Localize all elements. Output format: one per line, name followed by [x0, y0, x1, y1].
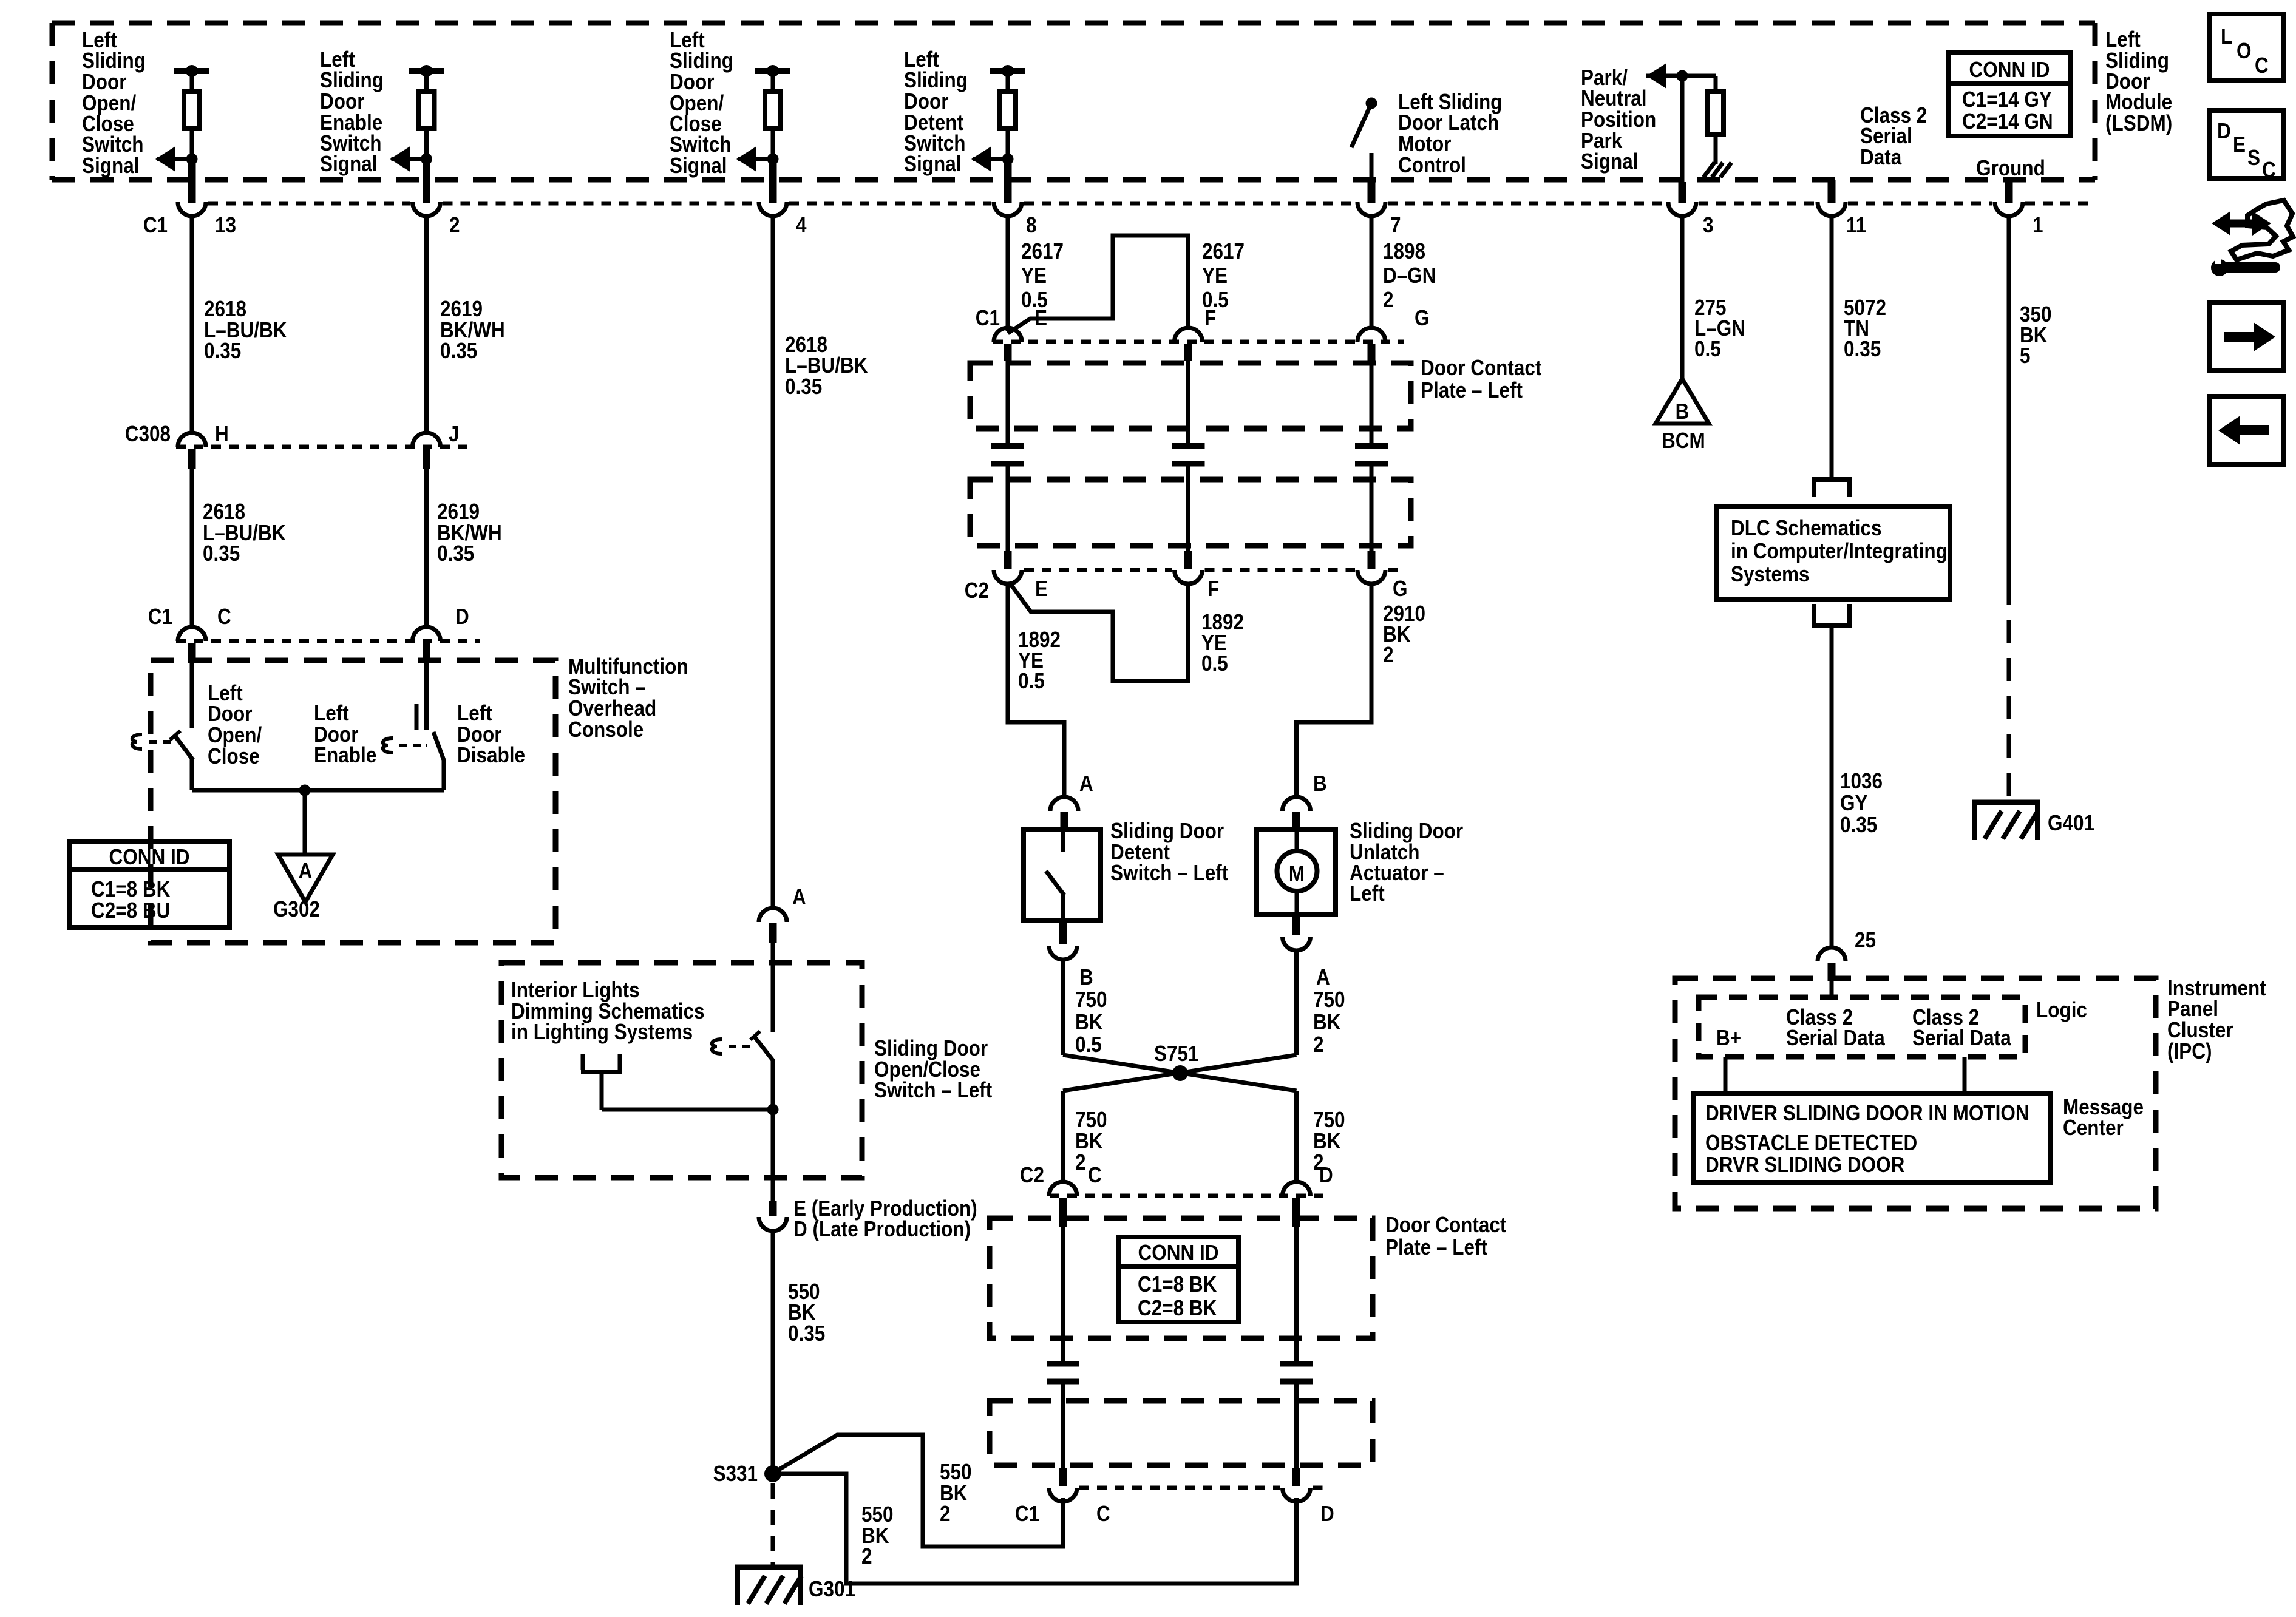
svg-text:C2: C2: [965, 578, 989, 603]
wire label 1892 YE 0.5 (F): [1201, 610, 1244, 676]
svg-text:Left: Left: [1350, 881, 1385, 906]
svg-text:YE: YE: [1021, 263, 1047, 288]
pin 4 internal circuit (bar, resistor, arrow): [736, 65, 790, 203]
BCM triangle B: [1656, 379, 1709, 424]
svg-text:CONN ID: CONN ID: [1969, 58, 2050, 82]
wire label 5072 TN 0.35: [1844, 296, 1886, 361]
connector C308 pin J: [413, 433, 441, 469]
svg-text:Switch – Left: Switch – Left: [1110, 861, 1228, 885]
svg-text:CONN ID: CONN ID: [1138, 1241, 1219, 1265]
svg-text:1: 1: [2033, 213, 2043, 237]
svg-text:Signal: Signal: [82, 154, 139, 178]
label Class 2 Serial Data (pin 11): [1860, 103, 1927, 169]
svg-text:2: 2: [1383, 643, 1394, 667]
svg-text:D: D: [2217, 119, 2231, 143]
box Sliding Door Unlatch Actuator - Left: [1257, 829, 1336, 915]
CONN ID box (overhead console): [69, 842, 229, 927]
connector C1 pin 4: [759, 202, 787, 216]
svg-text:Control: Control: [1398, 153, 1466, 177]
box Interior Lights Dimming: [501, 963, 862, 1178]
svg-text:Plate – Left: Plate – Left: [1421, 378, 1523, 402]
connector C1 pin 13: [178, 202, 206, 216]
svg-text:G302: G302: [273, 897, 320, 921]
wire label 750 BK 0.5: [1075, 988, 1107, 1057]
svg-text:Center: Center: [2063, 1116, 2124, 1140]
junction dot: [767, 1104, 779, 1116]
wire label 2910 BK 2: [1383, 602, 1425, 667]
svg-text:GY: GY: [1840, 791, 1868, 815]
icon DESC box: [2210, 110, 2284, 183]
wire label 750 BK 2: [1075, 1108, 1107, 1175]
svg-text:2: 2: [449, 213, 460, 237]
wire 1892 YE from C2 E down: [1006, 583, 1010, 722]
dimmer branch wire: [602, 1108, 773, 1112]
label Left Sliding Door Latch Motor Control (pin 7): [1398, 90, 1502, 177]
svg-text:C1: C1: [143, 213, 168, 237]
wire 750 BK 2 (to C2 D): [1294, 1091, 1299, 1183]
box Door Contact Plate upper (door half): [970, 363, 1411, 429]
connector C1 line C D (bottom): [1079, 1486, 1280, 1490]
wire 5072 TN to DLC: [1830, 215, 1834, 480]
svg-text:O: O: [2237, 39, 2252, 63]
connector C308 pin H: [178, 433, 206, 469]
connector C1 pin D (bottom): [1283, 1468, 1311, 1502]
svg-text:Plate – Left: Plate – Left: [1385, 1235, 1487, 1259]
svg-text:C1: C1: [976, 306, 1000, 330]
svg-text:0.35: 0.35: [204, 339, 241, 363]
inline connector B (actuator): [1283, 797, 1311, 829]
svg-text:H: H: [215, 422, 229, 446]
svg-text:750: 750: [1075, 988, 1107, 1012]
svg-text:Signal: Signal: [904, 152, 961, 176]
inline connector B (detent out): [1049, 923, 1077, 960]
wire stub pin 1: [2005, 180, 2013, 203]
box Message Center: [1694, 1093, 2050, 1182]
wire 2619 from pin 2 to C308: [424, 215, 429, 433]
inline connector A (actuator out): [1283, 915, 1311, 951]
wire label 750 BK 2: [1313, 1108, 1345, 1175]
off-page bracket top (DLC): [1812, 480, 1852, 497]
wire 2619 C308 to C1: [424, 469, 429, 628]
mechanical link dashes (door switch): [729, 1045, 750, 1048]
svg-text:0.35: 0.35: [437, 541, 474, 566]
wire 2618 from pin 4: [771, 215, 775, 908]
wire label 2618 L-BU/BK 0.35: [204, 297, 287, 363]
svg-text:in Lighting Systems: in Lighting Systems: [511, 1020, 693, 1044]
box DLC Schematics: [1716, 507, 1950, 600]
svg-text:C2=8 BU: C2=8 BU: [91, 898, 170, 923]
dashed wire S331 to G301: [771, 1483, 775, 1565]
svg-text:B+: B+: [1716, 1026, 1741, 1050]
CONN ID box (LSDM): [1949, 52, 2070, 136]
connector C1 pin C: [178, 627, 206, 663]
svg-text:A: A: [1316, 965, 1330, 989]
svg-text:Signal: Signal: [320, 152, 377, 176]
svg-text:0.35: 0.35: [1844, 337, 1881, 361]
svg-text:0.5: 0.5: [1075, 1032, 1102, 1057]
connector C1 (overhead console) line: [176, 639, 480, 643]
fixed contact bar (left door disable): [415, 704, 419, 730]
svg-text:25: 25: [1855, 928, 1876, 952]
inline connector E/D (early/late production): [759, 1201, 787, 1231]
wires through lower plate: [1061, 1227, 1065, 1361]
svg-text:BK: BK: [1313, 1010, 1341, 1034]
wire label 550 BK 0.35: [788, 1280, 825, 1346]
svg-text:C1=8 BK: C1=8 BK: [1138, 1272, 1217, 1297]
switch Left Door Open/Close: [170, 731, 193, 790]
wire 750 BK 2 (to C2 C): [1061, 1091, 1065, 1183]
wire into left door open/close switch: [190, 663, 194, 728]
svg-text:2617: 2617: [1021, 239, 1064, 263]
label Left Door Disable: [457, 701, 525, 767]
svg-text:BCM: BCM: [1662, 429, 1705, 453]
box Logic: [1699, 997, 2025, 1057]
switch common bus wire: [192, 788, 444, 793]
svg-text:3: 3: [1703, 213, 1714, 237]
internal chassis ground at pin 3: [1703, 163, 1731, 177]
wire into left door disable switch: [424, 663, 429, 730]
box Sliding Door Detent Switch - Left: [1024, 829, 1101, 920]
wire 750 BK 0.5: [1061, 959, 1065, 1055]
wires through plate E F G: [1006, 361, 1010, 443]
svg-text:OBSTACLE DETECTED: OBSTACLE DETECTED: [1705, 1131, 1917, 1155]
svg-text:(IPC): (IPC): [2167, 1039, 2212, 1063]
wire jog to detent switch A: [1008, 720, 1064, 797]
wire label 350 BK 5: [2020, 302, 2052, 368]
switch latch motor control (pin 7 internal): [1351, 98, 1377, 203]
svg-text:1036: 1036: [1840, 769, 1883, 793]
connector C2 pin D: [1283, 1182, 1311, 1227]
wire 1898 from pin 7 to C1 G: [1370, 215, 1374, 328]
pin 8 internal circuit (bar, resistor, arrow): [971, 65, 1025, 203]
svg-text:2: 2: [861, 1544, 872, 1568]
wire label 2618 L-BU/BK 0.35 (pin 4): [785, 333, 868, 399]
label Class 2 Serial Data (right): [1912, 1005, 2012, 1050]
svg-text:0.35: 0.35: [788, 1321, 825, 1346]
svg-text:A: A: [792, 885, 806, 909]
box Multifunction Switch - Overhead Console: [151, 660, 555, 943]
wire label 275 L-GN 0.5: [1694, 296, 1745, 361]
svg-text:G: G: [1393, 577, 1408, 601]
svg-text:B: B: [1313, 771, 1327, 796]
inline connector A (detent switch): [1050, 797, 1078, 829]
connector C2 pin G: [1357, 551, 1385, 584]
junction dot on bus: [299, 785, 311, 796]
label Door Contact Plate - Left (lower): [1385, 1213, 1506, 1259]
switch Sliding Door Open/Close - Left: [750, 1031, 773, 1061]
svg-text:0.35: 0.35: [440, 339, 477, 363]
svg-text:C1: C1: [148, 605, 172, 629]
connector C2 pin E: [994, 551, 1022, 584]
svg-text:C: C: [2255, 53, 2269, 78]
icon right arrow box: [2210, 303, 2284, 371]
svg-text:B: B: [1079, 965, 1093, 989]
svg-text:B: B: [1676, 399, 1690, 424]
connector C1 pin 2: [413, 202, 441, 216]
module box Left Sliding Door Module (LSDM): [52, 23, 2095, 180]
svg-text:DRIVER SLIDING DOOR IN MOTION: DRIVER SLIDING DOOR IN MOTION: [1705, 1101, 2029, 1125]
svg-text:G301: G301: [809, 1577, 855, 1601]
svg-text:C1=14 GY: C1=14 GY: [1962, 87, 2052, 112]
wire 2618 from pin 13 to C308: [190, 215, 194, 433]
svg-text:C: C: [217, 605, 231, 629]
svg-text:D–GN: D–GN: [1383, 263, 1436, 288]
svg-text:Signal: Signal: [670, 154, 727, 178]
label Door Contact Plate - Left: [1421, 356, 1541, 402]
svg-text:CONN ID: CONN ID: [109, 845, 190, 869]
wire jog to actuator B: [1297, 720, 1372, 797]
svg-text:C: C: [1088, 1163, 1102, 1187]
svg-text:Door Contact: Door Contact: [1421, 356, 1541, 380]
wire stub pin 11: [1828, 180, 1836, 203]
wire 275 L-GN to BCM: [1680, 215, 1685, 380]
connector C308 line: [176, 445, 470, 449]
dashed wire to G401: [2007, 581, 2011, 802]
wire label 2617 YE 0.5 (branch F): [1202, 239, 1245, 312]
svg-text:M: M: [1289, 862, 1305, 886]
mechanical link curl (right switch): [383, 738, 393, 753]
svg-text:DLC Schematics: DLC Schematics: [1731, 516, 1882, 540]
wire label 1036 GY 0.35: [1840, 769, 1883, 837]
svg-text:D: D: [1320, 1502, 1334, 1526]
connector C2 pin C: [1049, 1182, 1077, 1227]
svg-text:A: A: [1079, 771, 1093, 796]
svg-text:DRVR SLIDING DOOR: DRVR SLIDING DOOR: [1705, 1153, 1904, 1177]
wire 2618 C308 to C1: [190, 469, 194, 628]
connector C1 pin 8: [994, 202, 1022, 216]
svg-text:C2: C2: [1020, 1163, 1044, 1187]
label Left Door Open/Close: [208, 681, 262, 768]
svg-text:5: 5: [2020, 344, 2031, 368]
svg-text:Signal: Signal: [1581, 149, 1638, 174]
box Door Contact Plate lower (body half): [970, 480, 1411, 546]
svg-text:0.5: 0.5: [1201, 651, 1228, 676]
svg-text:2617: 2617: [1202, 239, 1245, 263]
svg-text:S: S: [2247, 146, 2260, 170]
svg-text:E: E: [2233, 132, 2246, 157]
contact capacitor symbols C D (lower): [1047, 1364, 1079, 1468]
wire serial data to message center: [1963, 1057, 1967, 1093]
svg-text:C: C: [2262, 158, 2276, 182]
box Door Contact Plate upper (lower plate): [990, 1218, 1373, 1338]
mechanical link dashes (right switch): [399, 744, 427, 747]
icon hand/wrench: [2211, 200, 2293, 276]
label Message Center: [2063, 1095, 2144, 1140]
icon LOC box: [2210, 14, 2284, 81]
wire 550 BK 2 branch to C1 pin C: [776, 1435, 1063, 1547]
svg-text:C2=14 GN: C2=14 GN: [1962, 109, 2053, 134]
svg-text:0.5: 0.5: [1694, 337, 1721, 361]
svg-text:BK: BK: [1075, 1010, 1103, 1034]
connector C2 line E F G: [1024, 568, 1172, 572]
splice S751 crossover: [1063, 1055, 1297, 1091]
wire 550 BK 0.35: [771, 1230, 775, 1468]
svg-text:J: J: [449, 422, 460, 446]
svg-text:in Computer/Integrating: in Computer/Integrating: [1731, 539, 1948, 563]
svg-text:Ground: Ground: [1976, 156, 2045, 180]
connector C2 line C D (lower): [1050, 1194, 1330, 1198]
wire 750 BK 2: [1294, 950, 1299, 1055]
connector C2 pin F: [1175, 551, 1203, 584]
wire 350 BK to G401: [2007, 215, 2011, 581]
svg-text:YE: YE: [1202, 263, 1228, 288]
wire label 2619 BK/WH 0.35 (second): [437, 500, 502, 566]
svg-text:C: C: [1096, 1502, 1110, 1526]
label Sliding Door Open/Close Switch - Left: [874, 1036, 992, 1102]
connector line C1 (module pins): [208, 202, 410, 206]
wire from switch to junction: [771, 1060, 775, 1201]
svg-text:E: E: [1035, 577, 1048, 601]
connector C1 (door) line E F G: [993, 340, 1404, 344]
label Left Sliding Door Module (LSDM): [2105, 27, 2172, 135]
svg-text:Enable: Enable: [314, 743, 376, 767]
connector C1 pin C (bottom): [1049, 1468, 1077, 1502]
svg-text:Systems: Systems: [1731, 562, 1810, 586]
splice S331: [764, 1465, 781, 1482]
mechanical link curl (door switch): [712, 1039, 722, 1054]
svg-text:2: 2: [1383, 288, 1394, 312]
svg-text:F: F: [1207, 577, 1219, 601]
svg-text:A: A: [299, 859, 313, 883]
wire B+ to message center: [1724, 1057, 1728, 1093]
svg-text:L: L: [2221, 24, 2232, 49]
connector C1 pin G: [1357, 328, 1385, 361]
svg-text:4: 4: [796, 213, 807, 237]
label Park/Neutral Position Park Signal (pin 3): [1581, 66, 1656, 174]
CONN ID box (door contact plate): [1118, 1237, 1238, 1322]
label Left Door Enable: [314, 701, 376, 767]
svg-text:D: D: [455, 605, 469, 629]
svg-text:0.35: 0.35: [203, 541, 240, 566]
svg-text:(LSDM): (LSDM): [2105, 111, 2172, 135]
mechanical link curl (left switch): [132, 734, 142, 749]
svg-text:C1: C1: [1015, 1502, 1039, 1526]
svg-text:0.35: 0.35: [785, 375, 822, 399]
switch Left Door Enable/Disable: [433, 732, 444, 790]
ground G401: [1972, 802, 2040, 840]
label Instrument Panel Cluster (IPC): [2167, 976, 2266, 1063]
svg-text:2: 2: [1313, 1032, 1324, 1057]
label Left Sliding Door Open/Close Switch Signal (pin 4): [670, 28, 733, 178]
label Left Sliding Door Open/Close Switch Signal (pin 13): [82, 28, 146, 178]
svg-text:D (Late Production): D (Late Production): [793, 1217, 971, 1241]
wire label 750 BK 2: [1313, 988, 1345, 1057]
wire 1036 GY to IPC: [1830, 625, 1834, 947]
wire 1892 YE jog C2 E to C2 F: [1010, 583, 1189, 681]
svg-text:C2=8 BK: C2=8 BK: [1138, 1296, 1217, 1320]
svg-text:D: D: [1319, 1163, 1333, 1187]
svg-text:7: 7: [1390, 213, 1401, 237]
label Class 2 Serial Data (left): [1786, 1005, 1886, 1050]
mechanical link dashes (left switch): [149, 740, 171, 744]
svg-text:2: 2: [1075, 1150, 1086, 1175]
wire label 550 BK 2 (branch 2): [861, 1502, 894, 1568]
box Instrument Panel Cluster (IPC): [1675, 978, 2156, 1209]
off-page bracket bottom (DLC): [1812, 604, 1852, 625]
svg-text:Logic: Logic: [2036, 998, 2087, 1022]
dimmer tap symbol: [581, 1054, 622, 1110]
label Sliding Door Detent Switch - Left: [1110, 819, 1228, 885]
svg-text:0.35: 0.35: [1840, 813, 1877, 837]
svg-text:E: E: [1034, 306, 1047, 330]
connector C1 pin D: [413, 627, 441, 663]
ground G301: [735, 1567, 803, 1605]
icon left arrow box: [2210, 396, 2284, 464]
label Interior Lights Dimming Schematics in Lighting Systems: [511, 978, 704, 1044]
connector C1 pin F: [1175, 328, 1203, 361]
wire label 2617 YE 0.5 (pin 8): [1021, 239, 1064, 312]
svg-text:8: 8: [1026, 213, 1037, 237]
svg-text:G401: G401: [2048, 811, 2094, 835]
connector C1 pin E: [994, 328, 1022, 361]
svg-text:13: 13: [215, 213, 236, 237]
label Sliding Door Unlatch Actuator - Left: [1350, 819, 1463, 906]
wire label 1892 YE 0.5 (E): [1018, 628, 1061, 693]
label Multifunction Switch - Overhead Console: [568, 654, 688, 742]
svg-text:Data: Data: [1860, 145, 1902, 169]
svg-text:Serial Data: Serial Data: [1786, 1026, 1886, 1050]
pin 13 internal circuit (bar, resistor, arrow): [155, 65, 209, 203]
label Left Sliding Door Detent Switch Signal (pin 8): [904, 47, 968, 176]
wire label 2618 L-BU/BK 0.35 (second): [203, 500, 286, 566]
wire 550 BK 2 branch to C1 pin D: [777, 1474, 1297, 1584]
wire label 550 BK 2 (branch 1): [940, 1460, 972, 1526]
connector bowls pins 7,3,11,1: [1357, 202, 1385, 216]
inline connector 25: [1818, 947, 1846, 981]
svg-text:Switch – Left: Switch – Left: [874, 1078, 992, 1102]
svg-text:Door Contact: Door Contact: [1385, 1213, 1506, 1237]
svg-text:1898: 1898: [1383, 239, 1425, 263]
resistor pull-up at pin 3: [1708, 76, 1724, 164]
ground G302 triangle: [278, 855, 333, 902]
pin 2 internal circuit (bar, resistor, arrow): [390, 65, 444, 203]
label Left Sliding Door Enable Switch Signal (pin 2): [320, 47, 384, 176]
svg-text:G: G: [1415, 306, 1430, 330]
wire 2910 BK from C2 G down: [1370, 583, 1374, 722]
wire 2617 from pin 8 to C1 E: [1006, 215, 1010, 331]
wire jog 2617 to C1 F: [1008, 236, 1189, 333]
svg-text:S751: S751: [1154, 1042, 1199, 1066]
svg-text:Serial Data: Serial Data: [1912, 1026, 2012, 1050]
box Door Contact Plate lower (lower plate): [990, 1401, 1373, 1465]
wire label 2619 BK/WH 0.35: [440, 297, 505, 363]
contact capacitor symbols E F G: [991, 446, 1024, 552]
svg-text:2: 2: [940, 1502, 951, 1526]
svg-text:750: 750: [1313, 988, 1345, 1012]
svg-text:0.5: 0.5: [1018, 669, 1045, 693]
inline connector A (switch): [759, 908, 787, 943]
wire to G302: [303, 790, 307, 855]
wire A to switch: [771, 943, 775, 1032]
wire into logic box: [1830, 981, 1834, 998]
pin 3 internal park signal arrow: [1646, 63, 1716, 203]
svg-text:11: 11: [1846, 213, 1866, 237]
svg-text:Disable: Disable: [457, 743, 525, 767]
svg-text:Close: Close: [208, 744, 260, 768]
svg-text:C308: C308: [125, 422, 171, 446]
svg-text:Console: Console: [568, 717, 644, 742]
svg-text:S331: S331: [713, 1462, 758, 1486]
wire label 1898 D-GN 2: [1383, 239, 1436, 312]
svg-text:F: F: [1204, 306, 1216, 330]
